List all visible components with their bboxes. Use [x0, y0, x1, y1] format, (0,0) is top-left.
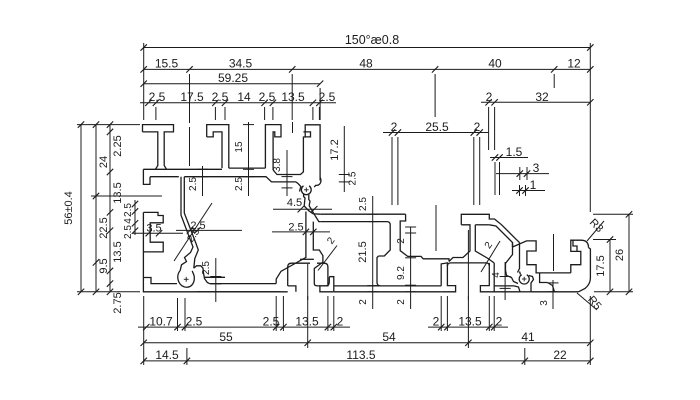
extension line right edge top: [589, 43, 591, 212]
neck below boss B1 inner: [309, 195, 315, 216]
extension line left edge top: [143, 43, 145, 120]
extension 15.5/34.5: [189, 74, 191, 123]
svg-text:54: 54: [382, 330, 396, 344]
extension: [499, 162, 501, 195]
svg-text:41: 41: [521, 330, 535, 344]
dimension row 55 / 54 / 41: [144, 342, 591, 344]
svg-text:1.5: 1.5: [506, 145, 523, 159]
svg-text:2: 2: [391, 120, 398, 134]
svg-text:2.75: 2.75: [112, 292, 124, 313]
svg-text:4: 4: [123, 218, 134, 224]
svg-text:59.25: 59.25: [218, 71, 248, 85]
brace inner edge: [184, 177, 198, 269]
slot B bottom: [229, 167, 266, 169]
hook right of boss B1: [314, 178, 321, 188]
middle top wall interior ceiling: [321, 222, 391, 256]
foot2 right leg + lip: [480, 263, 494, 292]
web bottom left part: [150, 176, 179, 178]
extension foot slot: [488, 296, 490, 331]
dimension 2 / 25.5 / 2: [383, 132, 489, 134]
svg-text:13.5: 13.5: [112, 241, 124, 262]
extension: [525, 185, 527, 196]
extension: [479, 137, 481, 205]
dimension chain 2.5/17.5/2.5/14/2.5/13.5/2.5: [140, 102, 336, 104]
svg-text:2: 2: [337, 314, 344, 328]
svg-text:3: 3: [539, 300, 550, 306]
glazing channel bottom wall underside: [548, 283, 555, 292]
bottom chain right 2 / 13.5 / 2: [428, 326, 508, 328]
extension stub: [312, 107, 314, 120]
step up to boss3 area: [514, 286, 520, 292]
bottom edge left of foot1 mouth: [197, 291, 288, 293]
centerline slot C stub: [292, 122, 294, 133]
extension: [519, 167, 521, 180]
chamfer left end of middle wall: [313, 213, 321, 215]
glazing channel bottom step: [540, 273, 548, 283]
centerline foot slot 2: [467, 230, 469, 300]
svg-text:2.5: 2.5: [348, 171, 359, 185]
svg-text:56±0.4: 56±0.4: [63, 191, 75, 225]
svg-text:34.5: 34.5: [229, 57, 253, 71]
svg-text:2: 2: [358, 299, 369, 305]
bottom chain 10.7 / 2.5: [138, 326, 350, 328]
dimension 2.5 bottom lip left: [215, 258, 217, 302]
boss B2 cross mark: [184, 278, 189, 280]
svg-text:2.5: 2.5: [288, 221, 303, 233]
svg-text:4.5: 4.5: [287, 197, 302, 209]
foot2 chamber ceiling: [447, 263, 489, 266]
svg-text:2: 2: [433, 314, 440, 328]
svg-text:40: 40: [488, 57, 502, 71]
svg-text:2.5: 2.5: [259, 90, 276, 104]
svg-text:9.5: 9.5: [98, 258, 110, 273]
svg-text:2.5: 2.5: [234, 177, 245, 191]
middle cavity left wall outer + flare down to plate: [276, 212, 306, 284]
svg-text:10.7: 10.7: [149, 314, 173, 328]
extension: [488, 107, 490, 150]
extension stub: [318, 107, 320, 120]
svg-text:12: 12: [567, 57, 581, 71]
middle cavity main floor: [334, 285, 441, 287]
svg-text:24: 24: [98, 156, 110, 168]
boss B2 right lip / bump: [194, 266, 210, 284]
dimension 2 / 32: [481, 101, 590, 103]
svg-text:2: 2: [396, 299, 407, 305]
svg-text:2.5: 2.5: [263, 314, 280, 328]
extension line left edge bottom: [143, 296, 145, 365]
flange F2 lip + wall inner: [207, 132, 222, 168]
svg-text:22.5: 22.5: [98, 217, 110, 238]
inner chamfer line parallel: [489, 225, 512, 247]
dimension 3: [496, 173, 549, 175]
svg-text:14: 14: [237, 90, 251, 104]
extension 22: [524, 348, 526, 365]
leader R5: [577, 293, 597, 310]
cavity floor ledge: [210, 283, 277, 285]
dimension 150±0.8 overall width: [144, 47, 591, 49]
slot C bottom + F5 wall: [273, 125, 320, 181]
left tongues + pocket mouth: [143, 212, 163, 252]
extension: [397, 137, 399, 205]
left lip strip: [143, 169, 150, 184]
extension foot slot: [440, 296, 442, 331]
svg-text:25.5: 25.5: [425, 120, 449, 134]
svg-text:22: 22: [553, 348, 567, 362]
extension foot slot: [493, 296, 495, 331]
middle top wall exterior: [321, 213, 406, 215]
dimension row 15.5 / 34.5 / 48 / 40 / 12: [144, 68, 591, 70]
svg-text:2.5: 2.5: [358, 197, 369, 211]
bottom edge right of foot2: [494, 291, 520, 293]
screw boss B1: [301, 186, 311, 195]
dimension 3.8: [286, 150, 288, 196]
dimension 1: [512, 190, 545, 192]
extension stub: [155, 107, 157, 120]
extension: [526, 167, 528, 180]
svg-text:26: 26: [614, 249, 626, 261]
dimension column 2.5 / 21.5 / 2: [372, 196, 374, 309]
second middle wall left flare: [449, 225, 470, 262]
dimension column 2.25 / 13.5 / 13.5 / 2.75: [109, 125, 111, 292]
svg-text:2.5: 2.5: [319, 90, 336, 104]
flange F1 stem left side: [143, 132, 158, 169]
svg-text:14.5: 14.5: [155, 348, 179, 362]
floor left arc: [318, 277, 329, 286]
middle column right side + low channel floor: [400, 214, 449, 261]
dimension 59.25: [144, 83, 320, 85]
extension foot2 centerline: [467, 296, 469, 348]
dimension 2 slanted right: [481, 241, 500, 272]
extension: [391, 137, 393, 205]
centerline middle channel: [435, 205, 437, 251]
dimension 2.5 web left: [202, 166, 204, 196]
svg-text:1: 1: [530, 178, 537, 192]
extension: [494, 107, 496, 150]
dimension column 24 / 22.5 / 9.5: [95, 125, 97, 292]
flange F4: [265, 125, 281, 170]
bottom plate top edge left of boss: [143, 278, 177, 284]
dimension 17.2 slot depth: [343, 126, 345, 192]
svg-text:4: 4: [491, 272, 502, 278]
ledge left of wall: [300, 258, 314, 260]
svg-text:2.5: 2.5: [123, 203, 134, 217]
svg-text:2.5: 2.5: [188, 177, 199, 191]
extension: [494, 162, 496, 195]
flange second middle top with chamfer: [461, 214, 519, 242]
second middle wall right flare: [475, 225, 494, 263]
svg-text:2.5: 2.5: [149, 90, 166, 104]
extension line right edge bottom: [589, 296, 591, 365]
svg-text:2: 2: [496, 314, 503, 328]
dimension 4.5: [273, 208, 332, 210]
svg-text:13.5: 13.5: [295, 314, 319, 328]
svg-text:17.5: 17.5: [595, 255, 607, 276]
bottom edge between feet: [334, 291, 441, 293]
svg-text:2: 2: [396, 238, 407, 244]
glazing channel left wall inner: [518, 243, 520, 273]
brace outer edge: [180, 177, 193, 271]
svg-text:2.5: 2.5: [190, 220, 205, 232]
dimension row 14.5 / 113.5 / 22: [144, 360, 591, 362]
svg-text:113.5: 113.5: [346, 348, 375, 362]
dimension column 2 / 9.2 / 2: [410, 227, 412, 309]
extension stub: [272, 107, 274, 120]
centerline foot slot 1: [307, 264, 309, 300]
chamfer inner left end: [315, 216, 321, 222]
flange F2 bar + wall right edge: [207, 125, 229, 169]
dimension 2.5 slanted brace: [174, 203, 212, 261]
dimension 15 slot depth: [248, 122, 250, 196]
dimension 3 bottom right: [552, 280, 554, 309]
dimension 4 right boss: [504, 262, 506, 300]
extension stub: [264, 107, 266, 120]
extension line at y=196: [91, 195, 162, 197]
svg-text:3: 3: [533, 161, 540, 175]
dimension 2 slanted left (middle wall): [318, 246, 337, 271]
extension foot1 centerline: [307, 296, 309, 348]
extension: [519, 185, 521, 196]
svg-text:2.5: 2.5: [186, 314, 203, 328]
right wall hook + R3 top: [571, 240, 589, 273]
extension foot slot: [333, 296, 335, 331]
foot1 left lip: [288, 286, 296, 292]
foot1 chamber left wall + ceiling: [288, 263, 310, 286]
svg-text:55: 55: [219, 330, 233, 344]
svg-text:2: 2: [474, 120, 481, 134]
extension 48/40: [434, 74, 436, 117]
svg-text:17.5: 17.5: [180, 90, 204, 104]
svg-text:2.5: 2.5: [212, 90, 229, 104]
glazing channel notch left: [513, 241, 540, 273]
glazing channel floor: [540, 272, 571, 274]
svg-text:2: 2: [486, 90, 493, 104]
extension stub: [224, 107, 226, 120]
dimension 26: [593, 213, 633, 215]
dimension 1.5: [490, 157, 528, 159]
flange underside right: [475, 224, 489, 226]
extension boss left: [184, 298, 186, 331]
dimension 56±0.4 overall height: [77, 124, 140, 126]
svg-text:2.25: 2.25: [112, 135, 124, 156]
svg-text:17.2: 17.2: [329, 139, 341, 160]
floor ledge: [329, 276, 334, 278]
hook boss B3 link: [520, 272, 521, 275]
svg-text:9.2: 9.2: [396, 266, 407, 280]
hook right of boss B3: [529, 276, 534, 292]
web top slot A bottom: [143, 168, 222, 170]
dimension 3.5: [133, 232, 183, 234]
svg-text:13.5: 13.5: [458, 314, 482, 328]
extension foot slot: [327, 296, 329, 331]
extension: [473, 137, 475, 205]
foot1 chamber right wall + lip: [317, 263, 334, 292]
extension stub: [214, 107, 216, 120]
extension 14.5: [186, 348, 188, 365]
screw boss B3: [519, 275, 529, 284]
extension 34.5/48: [291, 74, 293, 120]
svg-text:15: 15: [234, 141, 245, 153]
svg-text:21.5: 21.5: [357, 241, 369, 262]
centerline right channel: [553, 234, 555, 271]
extension foot slot: [446, 296, 448, 331]
dimension 2.5 hook: [272, 231, 330, 233]
web bottom + slope under slot C: [184, 177, 296, 182]
svg-text:150°æ0.8: 150°æ0.8: [345, 33, 399, 47]
glazing channel left wall outer + hook: [506, 243, 519, 284]
svg-text:3.5: 3.5: [146, 223, 161, 235]
right edge R5 corner: [579, 248, 591, 292]
centerline slot A: [189, 127, 191, 166]
F5 lip notch: [303, 132, 310, 137]
dimension 2.5 horizontal brace: [176, 229, 242, 231]
extension foot slot: [282, 296, 284, 331]
neck below boss B1 outer: [304, 194, 314, 214]
extension 17.5 top: [593, 239, 616, 241]
foot2 left leg + lip: [441, 263, 455, 292]
middle cavity left wall inner with jog: [313, 222, 323, 286]
extension boss left: [177, 298, 179, 331]
svg-text:13.5: 13.5: [281, 90, 305, 104]
extension 59.25 right: [319, 88, 321, 120]
foot1 right leg outer: [329, 277, 334, 292]
svg-text:48: 48: [359, 57, 373, 71]
web end into boss B1: [296, 182, 301, 192]
column foot left corner: [377, 256, 381, 286]
extension 40/12: [553, 74, 555, 88]
left outer wall + bottom edge: [143, 212, 280, 291]
extension foot slot: [275, 296, 277, 331]
svg-text:13.5: 13.5: [112, 182, 124, 203]
flange F1 T-shape left: [143, 125, 174, 170]
right piece inner step: [573, 240, 577, 251]
svg-text:32: 32: [535, 90, 549, 104]
plate top edge right of foot2: [494, 285, 514, 287]
svg-text:2.5: 2.5: [123, 225, 134, 239]
leader R3: [587, 221, 604, 241]
svg-text:15.5: 15.5: [155, 57, 179, 71]
screw boss B2 (open cup pocket): [178, 271, 195, 288]
dimension stack 2.5 / 4 / 2.5 left: [134, 200, 136, 235]
